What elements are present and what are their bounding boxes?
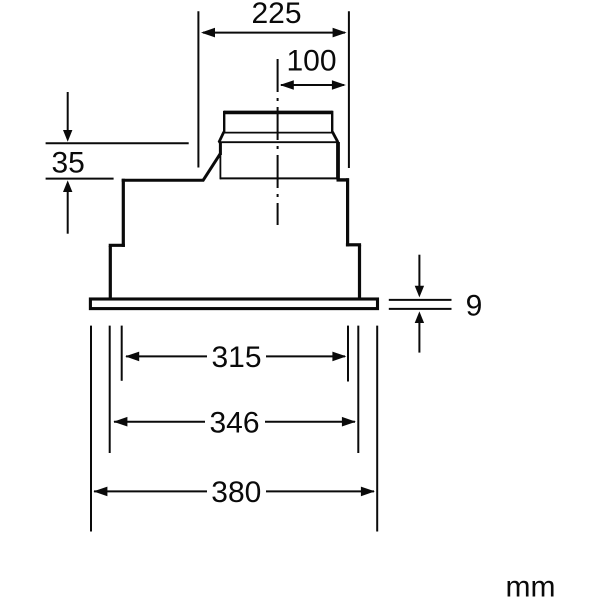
svg-text:35: 35 (52, 147, 85, 180)
centerline (dash-dot) (277, 59, 279, 225)
hood upper body (123, 178, 347, 247)
hood middle body (109, 245, 361, 298)
dimension 35 (46, 92, 189, 234)
dimension 225 (198, 11, 349, 168)
dimension 9 (389, 255, 452, 353)
svg-text:346: 346 (209, 407, 259, 440)
svg-text:315: 315 (211, 341, 261, 374)
svg-text:225: 225 (251, 0, 301, 30)
hood top edge (122, 154, 349, 181)
dimension 380 (91, 326, 377, 532)
svg-text:mm: mm (506, 571, 556, 601)
hood flange (bottom mounting plate) (90, 299, 377, 309)
dimension 315 (122, 326, 348, 382)
duct collar (218, 111, 338, 180)
svg-text:380: 380 (211, 476, 261, 509)
dimension 100 (281, 84, 344, 86)
svg-text:100: 100 (286, 45, 336, 78)
svg-text:9: 9 (466, 290, 483, 323)
dimension 346 (110, 326, 359, 453)
